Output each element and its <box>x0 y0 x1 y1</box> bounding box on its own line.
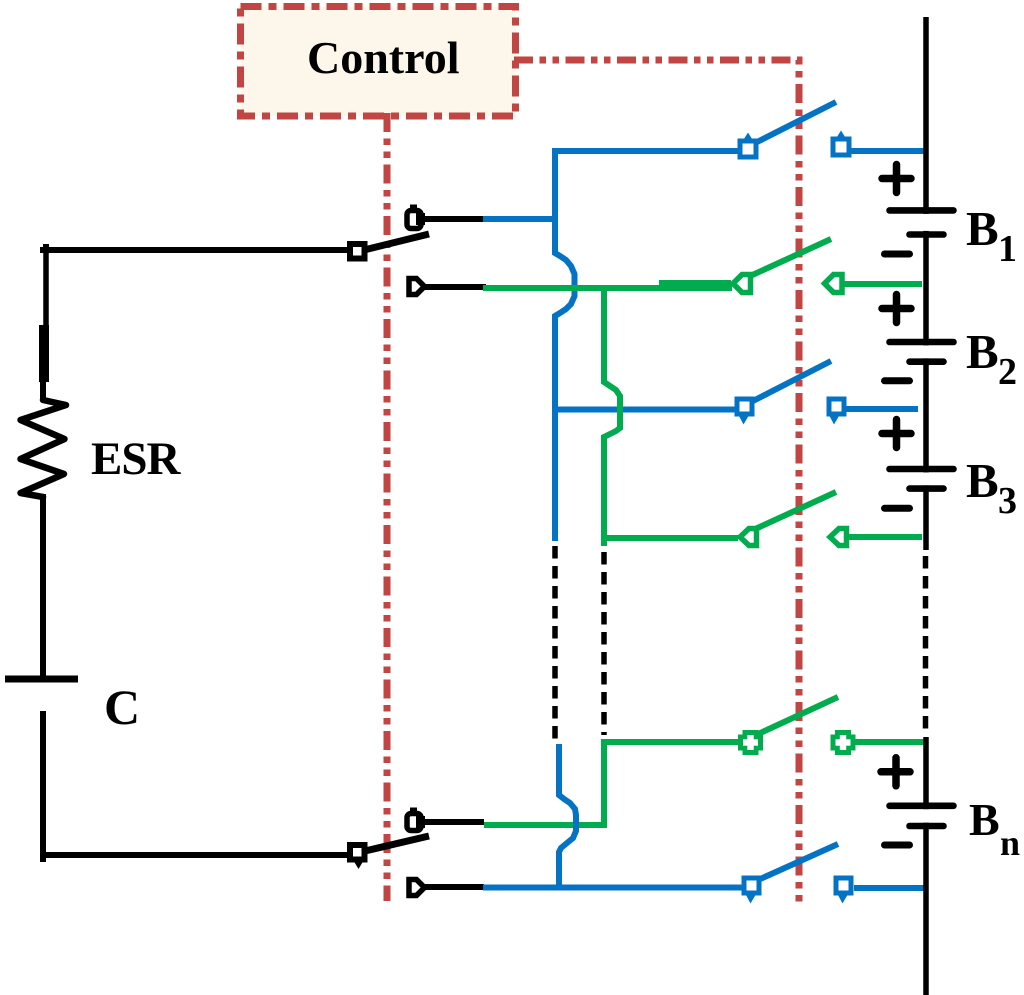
wire SB b2 stub <box>425 884 484 890</box>
switch SA pivot (black, top left) <box>350 234 429 259</box>
svg-text:B: B <box>969 794 1000 845</box>
wire green thick overlay <box>659 280 731 288</box>
switch SB contact b2 <box>409 880 425 896</box>
control line red right (node ctrl2) <box>514 60 799 903</box>
battery plate gaps <box>918 214 932 823</box>
battery string rail bottom <box>923 737 929 995</box>
label B3 <box>966 453 1017 522</box>
minus B3 <box>885 505 910 512</box>
switch S4 (green) <box>740 492 922 546</box>
wire blue lower horizontal <box>483 885 742 891</box>
label B1 <box>966 201 1017 270</box>
battery B1 <box>890 210 954 234</box>
plus Bn <box>881 758 910 786</box>
switch SA contact a2 <box>409 279 425 295</box>
svg-text:B: B <box>966 201 999 256</box>
battery Bn <box>890 806 954 826</box>
plus B3 <box>882 420 911 448</box>
wire green lower net <box>484 742 740 828</box>
svg-text:2: 2 <box>998 351 1017 393</box>
svg-text:ESR: ESR <box>91 433 181 485</box>
wire green net1 horizontal <box>483 285 732 291</box>
svg-text:n: n <box>1000 823 1020 863</box>
minus B1 <box>885 251 910 258</box>
minus B2 <box>885 377 910 384</box>
switch S6 (blue) <box>744 844 926 904</box>
plus B1 <box>882 165 911 193</box>
switch SB pivot (black, bottom left) <box>350 836 429 869</box>
plus B2 <box>882 295 911 323</box>
switch S1 (blue) <box>740 102 924 157</box>
switch SA contact a1 <box>407 205 425 229</box>
wire blue net2 vertical with hop <box>555 219 575 541</box>
dashed continuation x604 <box>601 552 607 735</box>
wire resistor to capacitor <box>40 494 46 679</box>
switch S3 (blue) <box>737 361 918 425</box>
wire blue lower vertical with hop <box>559 744 576 888</box>
label Bn <box>969 794 1020 863</box>
svg-text:B: B <box>966 453 999 508</box>
wire cap bottom lead <box>40 711 349 862</box>
control line red left (node ctrl1) <box>384 113 391 901</box>
capacitor C plate <box>5 676 78 683</box>
dashed continuation x555 <box>552 546 558 739</box>
battery B3 <box>890 469 954 489</box>
wire left rail upper <box>43 250 49 326</box>
svg-text:Control: Control <box>307 32 460 83</box>
switch S2 (green) <box>733 239 922 293</box>
minus Bn <box>885 842 910 849</box>
label B2 <box>966 324 1017 393</box>
dashed continuation battery <box>923 556 929 731</box>
wire blue net1 top <box>483 148 740 222</box>
switch S5 (green) <box>738 697 926 755</box>
svg-text:1: 1 <box>998 228 1017 270</box>
thick lead segment <box>39 325 49 382</box>
wire SA a2 stub <box>425 284 486 290</box>
battery B2 <box>890 342 954 362</box>
control box U1 <box>241 7 516 117</box>
wire SB b1 stub <box>425 819 484 825</box>
battery string rail top <box>923 17 929 550</box>
svg-text:C: C <box>104 679 140 735</box>
wire cap top horizontal <box>40 244 349 253</box>
svg-text:3: 3 <box>998 480 1017 522</box>
wire green vertical with hop <box>604 288 620 546</box>
wire SA a1 stub <box>425 216 484 222</box>
svg-text:B: B <box>966 324 999 379</box>
wire to resistor <box>40 380 46 401</box>
wire blue branch to S3 <box>555 407 736 413</box>
resistor ESR <box>21 400 67 497</box>
wire green branch to S4 <box>604 535 738 541</box>
switch SB contact b1 <box>407 808 425 831</box>
